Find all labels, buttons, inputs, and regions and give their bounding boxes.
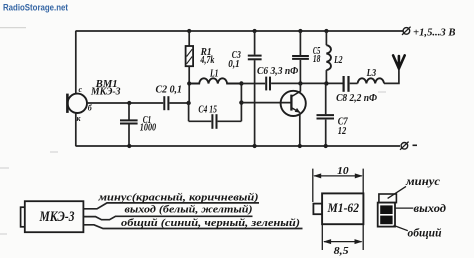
wire: C3 branch upper — [254, 31, 256, 55]
rear main rect — [378, 203, 395, 227]
wire: C8 to L3 — [350, 82, 358, 84]
capacitor C1 — [120, 120, 138, 123]
svg-text:С8 2,2 пФ: С8 2,2 пФ — [336, 93, 377, 104]
svg-text:выход (белый, желтый): выход (белый, желтый) — [125, 204, 253, 215]
node: tank left at C2 — [186, 101, 190, 105]
label output (white, yellow) — [125, 204, 253, 215]
mic body tab — [21, 207, 26, 227]
wire: L2 bottom to node — [325, 70, 327, 83]
wire: bottom ground rail — [76, 145, 401, 147]
svg-text:минус(красный, коричневый): минус(красный, коричневый) — [97, 193, 258, 204]
node: tank top right — [239, 81, 243, 85]
label 4,7k — [200, 55, 215, 66]
label +1,5...3 V — [413, 28, 456, 39]
svg-text:RadioStorage.net: RadioStorage.net — [3, 3, 69, 14]
svg-text:0,1: 0,1 — [228, 59, 239, 70]
contact pad common — [380, 216, 392, 225]
node: L1 left — [187, 81, 191, 85]
leader line common — [394, 225, 408, 230]
svg-text:С6 3,3 пФ: С6 3,3 пФ — [257, 66, 299, 77]
wire: mic output to C2 — [87, 102, 163, 104]
label R1 — [200, 47, 212, 58]
svg-text:с: с — [79, 85, 83, 94]
node: R1 top on supply rail — [187, 29, 191, 33]
svg-text:С2 0,1: С2 0,1 — [156, 85, 183, 96]
svg-text:МКЭ-3: МКЭ-3 — [90, 87, 120, 98]
wire: C2 to oscillator tank — [170, 102, 189, 104]
wire: C3 branch down to ground rail — [254, 60, 256, 146]
case box M1-62 — [322, 193, 363, 224]
leader line output — [395, 207, 413, 209]
wire: C7 branch — [325, 83, 327, 146]
label C8 2,2 pF — [336, 93, 377, 104]
wire: minus lead — [83, 203, 259, 209]
label L2 — [333, 55, 342, 66]
terminal: +supply — [402, 27, 411, 35]
svg-text:1000: 1000 — [140, 123, 156, 134]
svg-text:8,5: 8,5 — [334, 246, 349, 257]
contact pad output — [380, 205, 392, 214]
label C6 3,3 pF — [257, 66, 299, 77]
label minus — [405, 174, 441, 188]
label C5 — [313, 46, 321, 57]
rear top cap rect — [379, 194, 397, 203]
wire: collector up to node — [299, 83, 301, 91]
svg-text:18: 18 — [313, 54, 321, 65]
label M1-62 — [327, 200, 360, 215]
wire: microphone bottom to ground rail — [75, 113, 77, 146]
svg-text:4,7k: 4,7k — [200, 55, 215, 66]
label C4 15 — [198, 105, 217, 116]
wire: C6 to collector node and on to L2 node — [271, 82, 343, 84]
capacitor C3 — [248, 56, 262, 60]
node: C1 tap junction — [127, 101, 131, 105]
label L3 — [366, 68, 376, 79]
label BM1 — [95, 79, 118, 90]
label C2 0,1 — [156, 85, 183, 96]
inductor L2 — [326, 45, 331, 70]
wire: tank right vertical — [240, 84, 242, 122]
label 0,1 — [228, 59, 239, 70]
node: collector node — [298, 81, 302, 85]
node: emitter on ground rail — [298, 144, 302, 148]
wire: C4 horizontal links — [189, 120, 242, 122]
mic pin label c — [79, 85, 83, 94]
label 10 — [337, 166, 349, 177]
label output — [414, 201, 447, 215]
svg-text:М1-62: М1-62 — [327, 200, 360, 215]
label MKE-3 — [90, 87, 120, 98]
svg-text:L1: L1 — [209, 69, 218, 80]
wire: C5 to collector node — [299, 60, 301, 84]
dimension arrow 8,5 — [323, 239, 362, 244]
svg-text:10: 10 — [337, 166, 349, 177]
dimension extension lines top — [313, 169, 363, 202]
wire: left vertical from top rail to microphone — [75, 31, 77, 94]
svg-text:+1,5...3 В: +1,5...3 В — [413, 28, 456, 39]
label 12 — [338, 126, 347, 137]
mic pin label k — [77, 114, 82, 123]
node: C3 top on supply rail — [253, 29, 257, 33]
capacitor C4 — [212, 114, 216, 129]
node: C1 on ground rail — [127, 144, 131, 148]
wire: tank to C6 — [241, 83, 265, 85]
wire: C1 branch vertical — [128, 103, 130, 146]
svg-text:L3: L3 — [366, 68, 376, 79]
node: C7 on ground rail — [324, 144, 328, 148]
wire: L3 to antenna — [384, 68, 399, 83]
mic pin label b — [88, 104, 93, 113]
wire: common lead — [83, 225, 302, 229]
capacitor C2 — [164, 96, 168, 110]
wire: R1 branch from rail — [188, 31, 190, 46]
node: C3 on ground rail — [253, 144, 257, 148]
label 8,5 — [334, 246, 349, 257]
svg-text:МКЭ-3: МКЭ-3 — [39, 209, 75, 225]
svg-text:общий: общий — [408, 226, 442, 240]
capacitor C6 — [266, 77, 270, 91]
label common (blue, black, green) — [121, 218, 300, 229]
node: C5 top on supply rail — [298, 29, 302, 33]
capacitor C5 — [292, 56, 309, 59]
svg-text:L2: L2 — [333, 55, 342, 66]
resistor R1 — [186, 46, 194, 66]
label 18 — [313, 54, 321, 65]
wire: L2 branch upper — [325, 31, 327, 45]
label common — [408, 226, 442, 240]
microphone BM1 (electret) — [67, 94, 87, 113]
node: L2 top on supply rail — [324, 29, 328, 33]
capacitor C8 — [344, 76, 349, 92]
svg-text:12: 12 — [338, 126, 347, 137]
svg-text:минус: минус — [405, 174, 441, 188]
transistor VT1 — [281, 91, 306, 116]
label L1 — [209, 69, 218, 80]
wire: C5 branch upper — [299, 31, 301, 55]
label 1000 — [140, 123, 156, 134]
label minus sign — [413, 144, 418, 146]
wire: base wire to transistor — [241, 102, 290, 104]
dimension arrow 10 — [313, 173, 363, 178]
mic body box MKE-3 — [25, 201, 84, 232]
label C3 — [232, 50, 241, 61]
dimension extension lines bottom — [322, 224, 363, 250]
capacitor C7 — [317, 115, 335, 118]
wire: emitter down to ground rail — [299, 115, 301, 146]
svg-text:выход: выход — [414, 201, 447, 215]
node: base tap — [239, 100, 243, 104]
terminal: minus — [400, 142, 409, 150]
wire: top supply rail — [76, 30, 404, 32]
inductor L3 — [358, 78, 384, 83]
label minus (red, brown) — [97, 193, 258, 204]
wire: R1 bottom to L1 node, down to C4 corner — [188, 66, 191, 121]
label MKE-3 in box — [39, 209, 75, 225]
svg-text:общий (синий, черный, зеленый): общий (синий, черный, зеленый) — [121, 218, 300, 229]
svg-text:С4 15: С4 15 — [198, 105, 217, 116]
inductor L1 — [189, 78, 241, 83]
leader line minus — [388, 186, 406, 198]
antenna WA1 — [393, 55, 405, 68]
scan artifact streaks — [0, 28, 386, 234]
case tab — [313, 204, 322, 215]
label C7 — [338, 116, 349, 127]
label C1 — [143, 115, 152, 126]
site logo RadioStorage.net — [3, 3, 69, 14]
node: L2 / C7 node — [324, 81, 328, 85]
wire: output lead — [83, 216, 252, 219]
